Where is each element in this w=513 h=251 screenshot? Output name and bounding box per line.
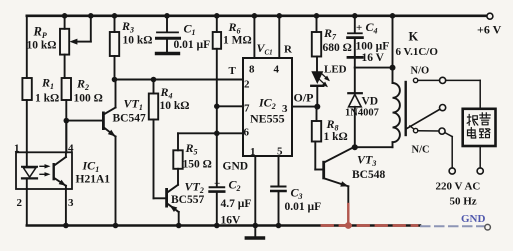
LED (316, 57, 318, 72)
wire C4/VD node to relay feed (355, 67, 393, 69)
svg-text:+6 V: +6 V (477, 23, 502, 37)
node +6V terminal (487, 13, 493, 19)
ground symbol below pin 1 (254, 226, 256, 237)
svg-text:H21A1: H21A1 (76, 174, 111, 186)
resistor R6 (214, 13, 220, 19)
wire pin 5 (278, 156, 280, 186)
svg-text:10 kΩ: 10 kΩ (160, 100, 190, 112)
wire VT1 base (66, 120, 102, 122)
capacitor C2 (210, 186, 225, 188)
svg-text:100 Ω: 100 Ω (74, 93, 103, 105)
op-amp / timer IC2 NE555 (243, 58, 292, 156)
relay armature (407, 109, 440, 128)
svg-text:+: + (356, 22, 362, 34)
svg-text:220 V AC: 220 V AC (436, 181, 481, 193)
svg-text:VD: VD (362, 96, 379, 108)
svg-text:R7: R7 (323, 26, 337, 42)
svg-text:O/P: O/P (294, 91, 314, 105)
svg-text:N/O: N/O (411, 66, 430, 77)
svg-text:680 Ω: 680 Ω (323, 42, 352, 54)
wire +6V top supply rail (27, 15, 487, 18)
svg-text:10 kΩ: 10 kΩ (123, 35, 153, 47)
svg-text:R6: R6 (228, 20, 241, 36)
svg-text:VT3: VT3 (357, 153, 376, 169)
svg-text:4.7 µF: 4.7 µF (221, 198, 252, 210)
LED inside IC1 (26, 152, 28, 166)
svg-text:+: + (214, 178, 220, 190)
node R2/VT1 base junction (64, 118, 70, 124)
svg-text:16 V: 16 V (362, 52, 385, 64)
capacitor C3 (271, 186, 285, 188)
svg-text:C3: C3 (291, 186, 303, 202)
警 (480, 113, 490, 125)
wire IC1 pin2 to ground (26, 189, 28, 226)
resistor R5 (177, 133, 179, 150)
relay core bar (405, 82, 407, 135)
svg-text:T: T (229, 65, 237, 77)
transistor VT1 BC547 (102, 112, 105, 131)
svg-text:R4: R4 (160, 85, 173, 101)
wire pin 4 reset (277, 13, 283, 19)
resistor R4 (153, 80, 155, 94)
svg-text:GND: GND (461, 213, 486, 225)
svg-text:RP: RP (33, 25, 47, 41)
svg-text:VT2: VT2 (185, 180, 204, 196)
svg-text:VC1: VC1 (257, 41, 273, 57)
svg-text:0.01 µF: 0.01 µF (174, 39, 211, 51)
wire IC1 pin3 to ground (65, 189, 67, 226)
wire left branch from +6V rail down to IC1 pin1 (26, 16, 28, 78)
blue dashed ground extension (421, 225, 484, 227)
svg-text:4: 4 (68, 143, 74, 155)
svg-text:IC2: IC2 (258, 96, 276, 112)
phototransistor inside IC1 (53, 163, 55, 180)
wire pin 1 to ground (254, 156, 256, 226)
svg-text:100 µF: 100 µF (356, 41, 390, 53)
wire IC1 pin4 (65, 121, 67, 153)
svg-text:6 V.1C/O: 6 V.1C/O (396, 46, 439, 58)
capacitor C4 (352, 13, 358, 19)
resistor R2 (62, 78, 71, 100)
diode VD 1N4007 (354, 68, 356, 93)
svg-text:R: R (284, 44, 293, 56)
svg-text:R1: R1 (41, 76, 54, 92)
svg-text:IC1: IC1 (82, 159, 100, 175)
resistor R3 (112, 13, 118, 19)
resistor R7 (314, 13, 320, 19)
svg-text:BC548: BC548 (352, 169, 385, 181)
svg-text:VT1: VT1 (124, 97, 143, 113)
svg-text:1: 1 (14, 143, 20, 155)
optocoupler IC1 H21A1 (16, 152, 72, 189)
resistor R8 (316, 107, 318, 121)
svg-text:R3: R3 (121, 19, 134, 35)
svg-text:GND: GND (223, 161, 249, 173)
alarm circuit box (报警电路) (463, 109, 496, 146)
node GND terminal (485, 224, 491, 230)
wire relay feed from +6V rail (390, 13, 396, 19)
svg-text:N/C: N/C (412, 145, 430, 156)
wire O/P output pin 3 (292, 106, 317, 108)
svg-text:LED: LED (324, 64, 347, 76)
svg-text:C2: C2 (229, 178, 241, 194)
svg-text:K: K (409, 30, 419, 44)
svg-text:C1: C1 (184, 22, 196, 38)
svg-text:3: 3 (68, 197, 74, 209)
wire pin 8 Vcc (252, 13, 258, 19)
电 (468, 128, 476, 138)
svg-text:4: 4 (274, 64, 280, 76)
svg-text:R5: R5 (185, 141, 198, 157)
wire to pin 7 (217, 105, 243, 107)
svg-text:8: 8 (249, 64, 255, 76)
svg-text:C4: C4 (366, 20, 378, 36)
svg-text:10 kΩ: 10 kΩ (27, 40, 57, 52)
red highlight dashes on ground rail (322, 224, 417, 227)
red mark VT3 emitter (347, 204, 349, 227)
svg-text:0.01 µF: 0.01 µF (285, 201, 322, 213)
报 (467, 115, 478, 126)
wire trigger node to NE555 pin 2 (112, 77, 118, 83)
wire VT3 collector node (353, 146, 393, 148)
transistor VT2 BC557 (165, 188, 168, 208)
路 (480, 129, 490, 138)
transistor VT3 BC548 (322, 161, 325, 180)
wire ground rail (27, 224, 420, 227)
svg-text:2: 2 (17, 197, 23, 209)
svg-text:50 Hz: 50 Hz (450, 196, 477, 208)
svg-text:BC547: BC547 (113, 113, 146, 125)
relay N/C contact (410, 126, 414, 129)
svg-text:1 MΩ: 1 MΩ (223, 35, 252, 47)
wire Rp wiper arm (88, 13, 94, 19)
potentiometer Rp (62, 13, 68, 19)
svg-text:6: 6 (244, 127, 250, 139)
wire R5 to pin 6 (178, 132, 243, 134)
svg-text:R2: R2 (76, 77, 89, 93)
node R4 top (151, 77, 157, 83)
node pin6 junction (214, 131, 220, 137)
node VT1 emitter ground (113, 223, 119, 229)
svg-text:1 kΩ: 1 kΩ (324, 131, 348, 143)
light arrows (40, 165, 48, 167)
capacitor C1 (164, 13, 170, 19)
resistor R1 (22, 78, 31, 100)
node pin7 junction (214, 104, 220, 110)
svg-text:150 Ω: 150 Ω (183, 159, 212, 171)
node VT2 emitter / ground (176, 223, 182, 229)
relay coil K (392, 68, 394, 83)
svg-text:NE555: NE555 (250, 112, 285, 126)
svg-text:1N4007: 1N4007 (345, 108, 379, 119)
svg-text:BC557: BC557 (171, 194, 204, 206)
svg-text:1 kΩ: 1 kΩ (35, 93, 59, 105)
svg-text:2: 2 (244, 79, 250, 91)
